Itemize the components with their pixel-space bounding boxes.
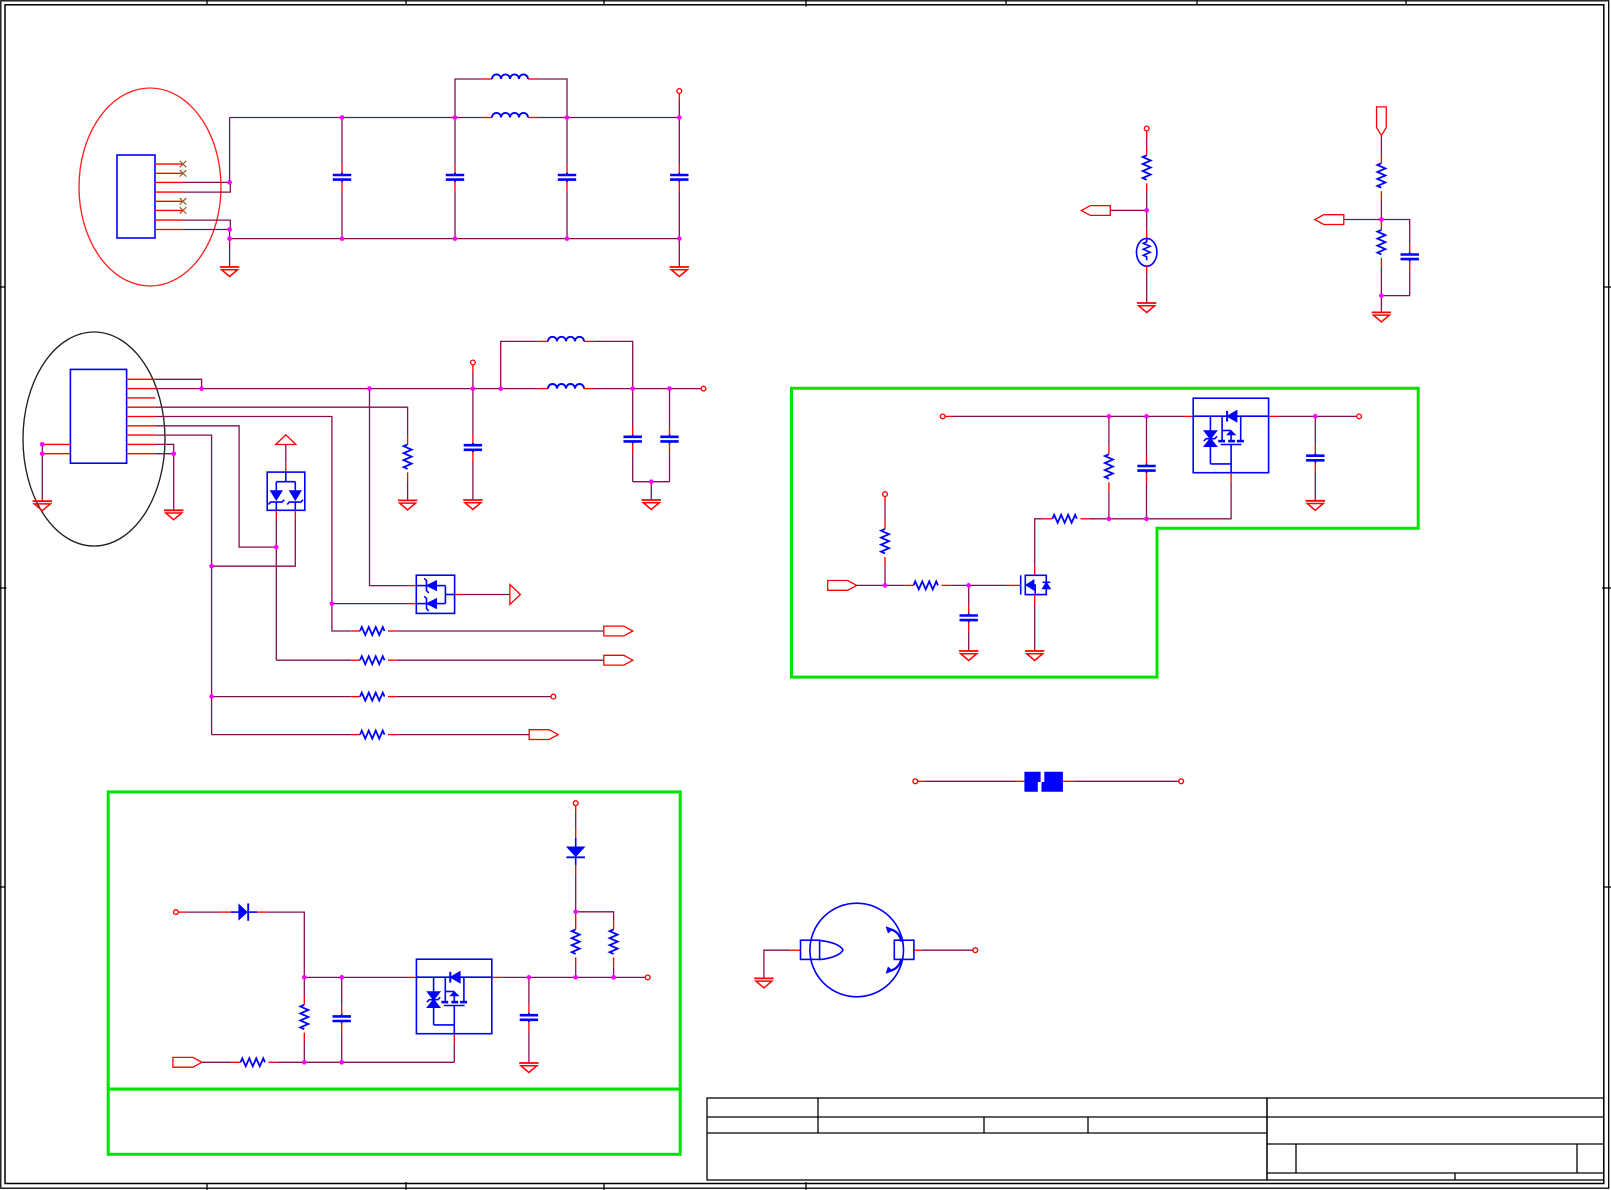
wire gnd drop	[229, 230, 231, 268]
PMOS Q1 pin stubs	[1184, 416, 1277, 481]
junction dot (1315.3,416.4)	[1313, 414, 1318, 419]
junction dot (575.7,977.4)	[573, 975, 578, 980]
resistor R2 row1	[351, 627, 604, 635]
TVS dual diode D1 box	[267, 472, 305, 510]
terminal circle enable pullup top	[883, 492, 888, 520]
terminal circle mid rail out	[701, 386, 706, 391]
green highlight box reverse protection	[108, 792, 680, 1089]
resistor R16	[610, 921, 618, 978]
junction dot (500.7,388.6)	[498, 386, 503, 391]
ground G6	[463, 500, 482, 510]
junction dot (567,238.6)	[565, 236, 570, 241]
junction dot (455,117.5)	[453, 115, 458, 120]
terminal circle switch output	[1357, 414, 1362, 419]
terminal circle thermistor top	[1144, 126, 1149, 146]
motor left lead	[764, 950, 801, 978]
junction dot (885,585.4)	[883, 583, 888, 588]
capacitor C12	[333, 977, 351, 1062]
wire p7 branch	[155, 435, 211, 734]
capacitor C7	[660, 389, 678, 482]
junction dot (472.9,388.6)	[471, 386, 476, 391]
terminal circle out bottom	[645, 975, 650, 980]
no-connect X pin2	[180, 170, 187, 177]
junction dot (342,238.6)	[340, 236, 345, 241]
capacitor C8 parallel	[1381, 220, 1419, 296]
terminal circle fuse left	[913, 779, 1016, 784]
resistor R7	[1377, 163, 1385, 219]
junction dot (567,117.5)	[565, 115, 570, 120]
wire pin4 up to node	[183, 182, 230, 192]
flag terminal divider	[1315, 215, 1344, 225]
title block	[707, 1098, 1604, 1180]
junction dot (1146.5,416.4)	[1144, 414, 1149, 419]
terminal VOUT top	[677, 89, 682, 118]
wire divider bottom to ground	[1380, 296, 1382, 313]
connector J1 pin leads	[155, 164, 183, 229]
wire p5 node down to row1	[332, 604, 351, 631]
junction dot (679.3,117.5)	[677, 115, 682, 120]
ground G8	[1137, 303, 1156, 313]
green highlight note box	[108, 1089, 680, 1154]
wire row2 lead	[276, 659, 351, 661]
capacitor C6	[624, 389, 642, 482]
junction dot (1146.7,210.4)	[1144, 208, 1149, 213]
power arrow VCC	[276, 435, 296, 472]
resistor R5 row4	[351, 731, 529, 739]
resistor R15	[572, 912, 580, 978]
power flag VDD down	[1377, 107, 1387, 163]
connector J1 body	[117, 155, 155, 238]
wire p1 to rail	[155, 379, 201, 388]
wire TVS right pin to p7 net	[212, 520, 296, 567]
junction dot (229.6,238.6)	[227, 236, 232, 241]
junction dot (528.9,977.4)	[527, 975, 532, 980]
junction dot (1381.4,219.5)	[1379, 217, 1384, 222]
junction dot (229.6,229.5)	[227, 227, 232, 232]
capacitor C10 enable filter	[960, 585, 978, 651]
capacitor C4	[670, 118, 688, 239]
wire fuse right	[1073, 780, 1179, 782]
wire p9 to ground	[155, 454, 174, 511]
ground G7	[642, 500, 661, 510]
junction dot (211.6,696.6)	[209, 694, 214, 699]
wire flag to node	[857, 584, 885, 586]
highlight ellipse around input connector	[79, 88, 221, 286]
resistor R4 row3	[351, 693, 551, 701]
highlight ellipse around IC U1	[23, 332, 165, 546]
capacitor C11 output	[1306, 416, 1324, 500]
wire thermistor to ground	[1146, 266, 1148, 303]
wire gnd drop right	[678, 239, 680, 267]
wire bottom rail	[230, 238, 680, 240]
flag terminal ctrl	[173, 1057, 202, 1067]
diode box D2 pin stubs	[408, 586, 463, 604]
junction dot (331.9,603.6)	[330, 601, 335, 606]
wire cap join	[633, 481, 670, 483]
resistor R11 series gate	[885, 581, 969, 589]
junction dot (968.7,585.4)	[966, 583, 971, 588]
resistor R13	[300, 977, 308, 1062]
inductor L3 top loop mid	[501, 337, 633, 389]
terminal circle switch input	[940, 414, 1184, 419]
NMOS Q2 transistor	[1021, 575, 1050, 594]
wire diode to node	[267, 912, 305, 977]
ground G13	[754, 978, 773, 988]
junction dot (369.5,388.6)	[367, 386, 372, 391]
no-connect X pin6	[180, 207, 187, 214]
inductor L4 in rail mid	[538, 384, 593, 389]
junction dot (341.7,1062.3)	[339, 1060, 344, 1065]
resistor R10 gate feed	[1035, 515, 1090, 566]
no-connect X pin5	[180, 198, 187, 205]
wire PMOS out rail bottom	[501, 976, 646, 978]
wire mid rail to PMOS	[304, 976, 407, 978]
no-connect X pin1	[180, 161, 187, 168]
wire top rail left	[230, 117, 483, 119]
wire main rail right	[594, 388, 704, 390]
NMOS Q2 drain stub	[1034, 566, 1036, 575]
diode pair D2 box	[416, 575, 454, 613]
terminal circle supply in	[174, 910, 221, 915]
TVS D1 pin stubs	[276, 510, 295, 519]
fuse F1	[1016, 772, 1074, 792]
junction dot (1108.9,518.8)	[1107, 516, 1112, 521]
ground G5	[164, 510, 183, 520]
terminal circle row3	[551, 694, 556, 699]
junction dot (575.7,911.8)	[573, 909, 578, 914]
motor right lead	[914, 949, 973, 951]
wire row4 lead	[212, 734, 352, 736]
wire flag to divider node	[1344, 219, 1382, 221]
ground G9	[1372, 312, 1391, 322]
wire p4 to resistor	[155, 407, 407, 435]
IC U1 left pin leads	[42, 444, 70, 453]
wire flag to resistor	[202, 1061, 232, 1063]
PMOS Q1 load switch	[1193, 398, 1268, 473]
flag terminal row1	[604, 626, 633, 636]
junction dot (276.2,547.1)	[274, 545, 279, 550]
output arrow terminal	[510, 585, 521, 605]
wire diode box output	[463, 594, 510, 596]
thermistor RT1	[1137, 238, 1157, 266]
resistor R9 pullup	[1105, 416, 1113, 518]
wire rail to diode box pin1	[370, 389, 408, 586]
flag terminal thermistor	[1081, 206, 1110, 216]
wire p2 rail start	[155, 388, 201, 390]
terminal circle motor out	[973, 948, 978, 953]
diode D4 LED	[566, 828, 586, 874]
wire vbus riser	[229, 118, 231, 183]
wire PMOS gate to gate line	[1147, 482, 1232, 519]
capacitor C3	[558, 118, 576, 239]
motor M1	[801, 903, 914, 997]
junction dot (341.7,977.4)	[339, 975, 344, 980]
junction dot (42.3,444.4)	[40, 442, 45, 447]
junction dot (42.3,453.7)	[40, 451, 45, 456]
junction dot (304.3,1062.3)	[302, 1060, 307, 1065]
capacitor C5 mid	[464, 389, 482, 500]
IC U1 right pin leads	[127, 379, 156, 453]
resistor R6	[1143, 147, 1151, 211]
wire main rail	[202, 388, 539, 390]
wire PMOS Q3 gate down	[453, 1043, 455, 1063]
ground G11	[1025, 651, 1044, 661]
junction dot (632.7,388.6)	[630, 386, 635, 391]
wire PMOS out rail	[1278, 415, 1357, 417]
inductor L1 top	[455, 74, 567, 117]
junction dot (613.6,977.4)	[611, 975, 616, 980]
ground G1	[220, 267, 239, 277]
junction dot (669.5,388.6)	[667, 386, 672, 391]
capacitor C1	[333, 118, 351, 239]
wire pin3 to node	[183, 181, 230, 183]
capacitor C2	[446, 118, 464, 239]
flag terminal enable input	[828, 581, 857, 591]
IC U1 body	[70, 369, 126, 463]
resistor R12 enable pullup	[881, 520, 889, 585]
terminal circle mid top	[471, 360, 476, 389]
wire p8 to p9	[155, 444, 174, 453]
junction dot (1108.9,416.4)	[1107, 414, 1112, 419]
wire LED to split node	[575, 873, 577, 911]
junction dot (679.3,238.6)	[677, 236, 682, 241]
wire left pins to ground	[41, 444, 43, 501]
inductor L2 in rail	[482, 113, 537, 118]
ground G4	[398, 500, 417, 510]
junction dot (342,117.5)	[340, 115, 345, 120]
ground G10	[959, 651, 978, 661]
wire top rail right	[538, 117, 680, 119]
wire split horizontal	[576, 912, 614, 921]
ground G14	[519, 1063, 538, 1073]
terminal circle LED top	[573, 801, 578, 828]
wire gate line left	[1089, 518, 1146, 520]
wire p6 branch	[155, 426, 276, 547]
wire flag to node	[1110, 209, 1146, 211]
ground G12	[1306, 501, 1325, 511]
junction dot (201.6,388.6)	[199, 386, 204, 391]
wire row3 lead	[212, 696, 352, 698]
junction dot (304.3,977.4)	[302, 975, 307, 980]
diode D3 series	[220, 903, 267, 920]
flag terminal row4	[529, 730, 558, 740]
wire p5 branch	[155, 417, 332, 604]
resistor R3 row2	[351, 656, 604, 664]
wire gate drive	[969, 584, 1006, 586]
PMOS Q3 pin stubs	[408, 977, 501, 1042]
junction dot (455,238.6)	[453, 236, 458, 241]
capacitor C9 gate-source	[1137, 416, 1155, 518]
wire TVS left pin down to row2	[275, 520, 277, 661]
terminal circle fuse right	[1179, 779, 1184, 784]
ground G2	[670, 267, 689, 277]
junction dot (1146.5,518.8)	[1144, 516, 1149, 521]
wire pin7 down to node	[183, 220, 230, 229]
junction dot (229.6,182.4)	[227, 180, 232, 185]
junction dot (173.7,453.7)	[171, 451, 176, 456]
capacitor C13 out	[520, 977, 538, 1063]
resistor R14 bottom	[232, 1058, 455, 1066]
wire pin8 to node	[183, 229, 230, 231]
junction dot (1381.4,295.6)	[1379, 293, 1384, 298]
wire NMOS source to ground	[1034, 595, 1036, 651]
wire join to ground	[650, 482, 652, 500]
ground G3	[33, 501, 52, 511]
green highlight box load switch	[792, 388, 1419, 677]
flag terminal row2	[604, 655, 633, 665]
junction dot (651.3,481.7)	[649, 479, 654, 484]
junction dot (211.6,566.2)	[209, 564, 214, 569]
NMOS Q2 gate stub	[1006, 584, 1021, 586]
wire node to thermistor	[1146, 210, 1148, 238]
wire p5 node to diode box pin2	[332, 603, 408, 605]
resistor R8	[1377, 220, 1385, 296]
resistor R1 vertical	[404, 436, 412, 501]
PMOS Q3 reverse protect	[416, 959, 491, 1033]
